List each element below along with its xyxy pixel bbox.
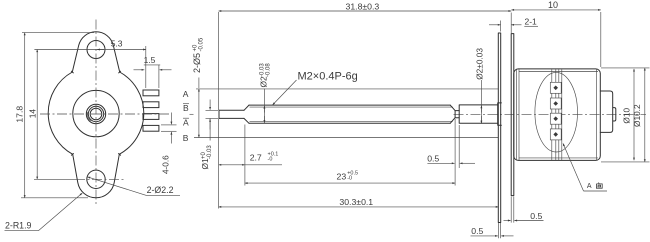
dim 4-0.6 extension top [161,124,177,126]
neck groove [455,111,459,118]
terminal pad 3 [550,113,561,124]
terminal pad 4 mark [553,132,558,137]
dim 0.5 plate extensions [498,223,500,238]
dim Ø1 lower arrow [209,119,211,130]
leader 2-Ø2.2 underline [146,194,180,196]
shaft tip bottom [219,117,244,119]
center boss circle [73,90,119,136]
rear bearing boss [600,91,616,132]
thread crest top [249,104,450,106]
shaft collar [498,103,502,125]
svg-text:A: A [183,89,189,99]
pin 2 [143,102,159,108]
svg-text:1.5: 1.5 [144,55,156,65]
dim Ø2±0.03 lower arrow [480,116,482,123]
dim 1.5 left arrow [134,69,145,71]
terminal pad 2 mark [553,101,558,106]
dim 30.3 line [219,206,499,208]
thread crest bottom [249,122,450,124]
dim 2.7 text line [245,164,282,166]
dim Ø1 text [200,145,213,170]
dim Ø10 line [633,69,635,160]
dim 31.8±0.3 line [219,10,512,12]
terminal pad 1 [550,82,561,93]
dim 14 bottom extension [34,178,75,180]
ear junction notch top-right [119,71,121,73]
dim Ø2±0.03 text [475,48,485,80]
pin 3 [143,114,159,120]
dim 0.5 bracket right arrow [514,220,543,222]
can inner wall bottom [519,157,598,159]
dim Ø2 thread upper arrow [263,106,265,113]
svg-text:23: 23 [337,172,347,182]
dim 0.5 neck right arrow [460,162,475,164]
flange plate [498,33,500,223]
dim 17.8 top extension [22,32,94,34]
ear junction notch bottom-right [119,154,121,156]
svg-text:-0.03: -0.03 [207,145,213,159]
dim 2-1 left arrow [489,24,501,26]
terminal pad 2 [550,98,561,109]
terminal band line 2 [555,69,557,160]
dim 4-0.6 extension bottom [161,130,177,132]
dim 0.5 plate right arrow [501,235,513,237]
dim 14 line [36,50,38,180]
bracket plate [511,34,514,196]
motor body circle (left arc) [48,72,72,154]
datum label B-bar overline [183,103,189,105]
dim 0.5 plate left arrow [471,235,498,237]
svg-text:0.5: 0.5 [471,226,483,236]
dim 2-1 underline [524,25,538,27]
terminal pad 3 mark [553,116,558,121]
pin 4 [143,125,159,131]
dim Ø10 text [622,108,632,124]
dim 0.5 bracket left arrow [504,220,511,222]
bottom mounting hole [87,170,105,188]
svg-text:-0: -0 [347,176,352,182]
svg-text:31.8±0.3: 31.8±0.3 [346,2,380,12]
svg-text:10: 10 [548,0,558,10]
thread end chamfer [450,105,455,123]
bottom mounting ear [73,154,120,197]
svg-text:2-Ø2.2: 2-Ø2.2 [147,185,174,195]
datum line B [194,137,499,139]
svg-text:-0.08: -0.08 [266,63,272,77]
svg-text:-0.05: -0.05 [199,37,205,51]
detail ellipse A [535,72,578,152]
svg-text:17.8: 17.8 [14,106,24,123]
svg-text:2.7: 2.7 [250,152,262,162]
dim Ø2 thread text [259,63,272,88]
svg-text:A: A [587,183,592,190]
can rear inner line [596,69,598,160]
dim 4-0.6 lower arrow [170,132,172,144]
terminal band line 4 [561,69,563,160]
svg-text:14: 14 [27,109,37,119]
bearing chamfer arc [87,112,91,121]
tip face extension line [218,12,220,209]
svg-text:2-1: 2-1 [525,17,538,27]
main axis centerline [454,113,647,115]
svg-text:-0: -0 [268,157,273,163]
dim Ø2 thread line [263,89,265,123]
thread root bottom [250,120,453,122]
label A view CJK glyph [596,183,602,189]
leader 2-Ø2.2 [88,177,147,195]
svg-text:4-0.6: 4-0.6 [162,155,171,174]
dim 23 line [245,182,455,184]
dim Ø10 extensions [601,68,650,162]
dim 1.5 extension [158,65,160,88]
thread lead chamfer [244,105,249,123]
svg-text:B: B [183,133,189,143]
svg-text:Ø2±0.03: Ø2±0.03 [475,48,485,80]
svg-text:B: B [183,103,189,113]
terminal pad 4 [550,129,561,140]
horizontal centerline left view [40,113,170,115]
shaft tip end face [218,110,220,118]
svg-text:2-R1.9: 2-R1.9 [5,221,32,231]
dim 17.8 bottom extension [21,197,88,199]
leader 2-R1.9 [39,193,83,231]
dim Ø2 thread lower arrow [263,116,265,123]
motor can outline [514,69,601,160]
dim 1.5 right arrow [160,69,172,71]
dim Ø1 upper arrow [209,100,211,110]
shaft tip top [219,109,244,111]
can front lip line 1 [516,70,518,160]
dim 5.3 line / hole centerline [34,49,145,51]
shaft body [459,105,497,123]
bottom hole centerline [75,178,125,180]
shaft bearing ring inner [90,108,102,120]
dim 0.5 neck left arrow [427,162,454,164]
motor body circle (right arc) [119,72,143,154]
thread spec leader [273,80,297,105]
terminal pad 1 mark [553,86,558,91]
svg-text:A: A [183,118,189,128]
dim 17.8 line [24,33,26,198]
dim 0.5 bracket extensions [511,197,514,223]
dim 2-1 right arrow [511,24,521,26]
dim 0.5 neck extension [458,125,460,168]
svg-text:0.5: 0.5 [427,154,439,164]
svg-text:0.5: 0.5 [530,211,542,221]
top mounting ear [72,32,119,72]
dim 10 right extension [600,12,602,67]
dim Ø2±0.03 line [480,80,482,124]
dim 10 left extension [510,13,512,34]
can inner wall top [519,71,598,73]
dim 4-0.6 upper arrow [170,113,172,125]
thread root top [250,106,453,108]
shaft bearing ring outer [86,104,105,123]
leader A view underline [584,190,608,192]
datum line A [196,88,499,90]
dim 2-Ø5 text [192,37,205,73]
can front lip line 2 [518,69,520,160]
dim 2-1 extensions [500,21,502,32]
dim Ø1 tip edge extensions [206,110,219,118]
svg-text:2-Ø5: 2-Ø5 [192,53,202,73]
dim Ø10.2 text [632,104,642,127]
ear junction notch top-left [71,71,73,73]
top mounting hole [87,41,105,59]
dim Ø10.2 line [644,68,646,162]
leader A view [563,143,584,191]
dim 1.5 underline [144,64,160,66]
dim 5.3 center arrow [97,49,104,51]
svg-text:Ø10: Ø10 [622,108,632,124]
svg-text:M2×0.4P-6g: M2×0.4P-6g [298,70,358,82]
vertical centerline left view [95,20,97,207]
ear junction notch bottom-left [71,154,73,156]
leader 2-R1.9 underline [5,230,39,232]
terminal band line 3 [558,69,560,160]
svg-text:5.3: 5.3 [111,38,123,48]
svg-text:30.3±0.1: 30.3±0.1 [339,197,373,207]
dim Ø2±0.03 upper arrow [480,106,482,113]
dim 5.3 extension [145,46,147,88]
pin 1 [143,90,159,96]
dim 23 extensions [245,119,455,186]
shaft bearing ring middle [88,106,103,121]
terminal band line 1 [551,69,553,160]
svg-text:Ø10.2: Ø10.2 [632,104,642,127]
dim 10 line [511,9,600,11]
datum label A-bar overline [183,117,189,119]
dim 2-Ø5 line [198,89,200,138]
dim 30.3 extension [497,127,499,210]
dim 2.7 line [219,164,245,166]
